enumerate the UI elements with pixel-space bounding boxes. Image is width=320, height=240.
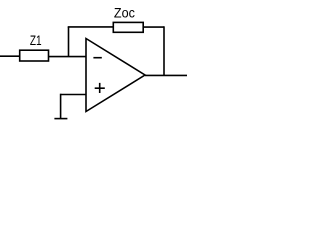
svg-text:Zoc: Zoc	[114, 5, 135, 21]
op-amp minus sign	[93, 57, 101, 59]
resistor Z1	[20, 50, 49, 61]
wire feedback top right	[143, 26, 164, 28]
wire ground stem	[60, 94, 62, 119]
resistor Zoc	[113, 22, 143, 32]
wire input left	[0, 55, 20, 57]
wire feedback right vertical	[163, 26, 165, 75]
ground	[54, 118, 67, 120]
svg-text:Z1: Z1	[30, 32, 42, 48]
wire Z1 to inverting input	[49, 56, 87, 58]
wire feedback top left	[68, 26, 114, 28]
wire feedback tap vertical	[68, 27, 70, 57]
wire output	[145, 74, 187, 76]
op-amp plus sign	[95, 83, 105, 93]
op-amp U1	[86, 39, 145, 112]
wire noninverting input	[61, 94, 86, 96]
